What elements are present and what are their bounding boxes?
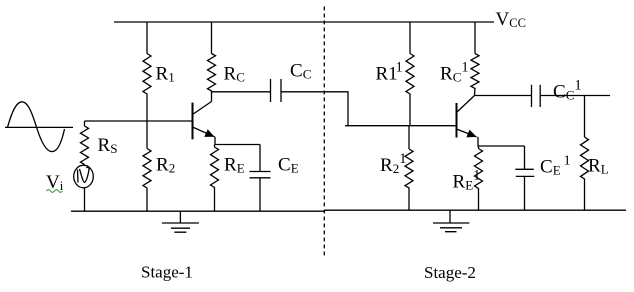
capacitor CE-prime bottom plate and lead (516, 176, 535, 210)
resistor RC-prime (471, 22, 479, 96)
svg-text:R21: R21 (380, 151, 406, 176)
svg-text:RE1: RE1 (453, 168, 481, 193)
input sine waveform curve (8, 102, 65, 152)
resistor RL (581, 96, 589, 211)
wire emitter Q2 node (478, 137, 525, 146)
transistor Q1 emitter arrow (204, 129, 214, 137)
svg-text:RE: RE (224, 154, 245, 175)
capacitor CE bottom plate and lead (250, 178, 271, 211)
ground symbol stage 1 (162, 211, 199, 232)
svg-text:VCC: VCC (496, 9, 526, 30)
resistor RE-prime (475, 146, 483, 210)
resistor RC (208, 22, 216, 102)
svg-text:CE: CE (278, 154, 299, 175)
svg-text:CC1: CC1 (553, 78, 582, 103)
wire base Q1 (85, 120, 193, 122)
transistor Q2 bar (456, 103, 458, 138)
wire CC-to-stage2 (coupling into stage 2) (281, 92, 348, 126)
wire output to RL (540, 95, 610, 97)
resistor R1-prime (406, 22, 414, 126)
AC source inner sine (78, 167, 90, 182)
wire collector Q2 to CC-prime (475, 95, 532, 97)
resistor R2-prime (405, 126, 413, 211)
transistor Q2 emitter arrow (466, 130, 476, 138)
capacitor CC left plate (270, 79, 272, 102)
svg-text:R11: R11 (376, 60, 403, 85)
stage separator dashed line (323, 7, 325, 257)
svg-text:RL: RL (588, 156, 609, 177)
transistor Q2 emitter (457, 129, 477, 137)
wire emitter Q1 node (215, 137, 260, 145)
resistor RE (211, 145, 219, 212)
source branch: RS resistor (81, 121, 89, 165)
transistor Q2 collector (457, 96, 475, 113)
AC source Vi circle (74, 165, 94, 188)
svg-text:RC1: RC1 (440, 60, 469, 85)
resistor R2 (143, 121, 151, 211)
ground symbol stage 2 (433, 210, 469, 232)
svg-text:RC: RC (224, 63, 245, 84)
resistor R1 (143, 22, 151, 121)
ground rail (bottom) (71, 210, 626, 211)
svg-text:CC: CC (290, 61, 311, 82)
transistor Q1 collector (193, 102, 212, 115)
svg-text:CE1: CE1 (540, 154, 571, 178)
capacitor CE-prime top plate and lead (515, 146, 534, 169)
spellcheck squiggle under Vi (47, 190, 63, 193)
svg-text:Stage-2: Stage-2 (424, 263, 476, 282)
svg-text:R1: R1 (156, 63, 175, 84)
wire source to ground rail (84, 188, 86, 211)
wire base Q2 (345, 125, 456, 127)
capacitor CC-prime right plate (539, 85, 541, 107)
transistor Q1 emitter (193, 127, 215, 137)
capacitor CC right plate (280, 79, 282, 102)
svg-text:R2: R2 (156, 155, 175, 176)
node VCC rail (top supply rail) (114, 21, 494, 23)
capacitor CE top plate and lead (250, 145, 271, 172)
svg-text:Stage-1: Stage-1 (141, 263, 193, 282)
svg-text:RS: RS (98, 135, 118, 156)
capacitor CC-prime left plate (531, 85, 533, 107)
wire RC-to-CC (collector node to coupling cap) (212, 91, 271, 93)
input sine waveform symbol axis (5, 126, 73, 128)
transistor Q1 bar (192, 103, 194, 140)
